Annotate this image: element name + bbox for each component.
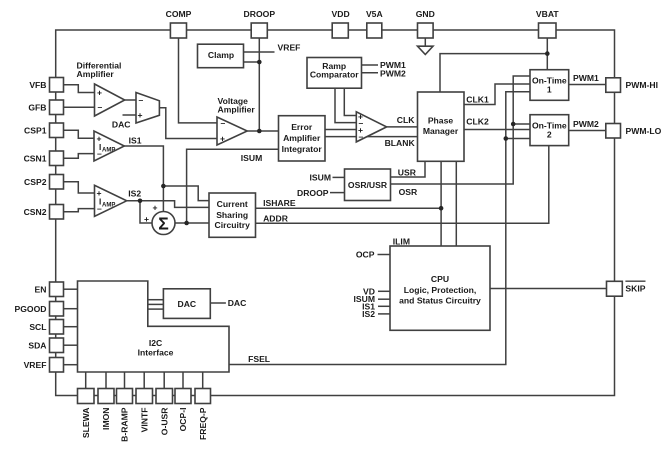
pin FREQ-P	[195, 389, 211, 404]
pin PWM-HI	[606, 78, 621, 93]
pin VFB	[50, 78, 64, 93]
wire COMP down to voltage amp -	[179, 38, 218, 123]
junction dot IS2 branch	[138, 199, 143, 204]
wire ramp comparator to pwm comparator -	[335, 88, 356, 122]
wire error amp to pwm comparator +	[325, 129, 356, 131]
svg-text:Current: Current	[217, 199, 248, 209]
op-amp voltage amplifier	[217, 117, 247, 145]
svg-text:Comparator: Comparator	[310, 70, 359, 80]
wire OSR riser to On-Time 1	[391, 76, 531, 184]
block CPU	[390, 246, 490, 330]
svg-text:+: +	[144, 214, 149, 224]
amplifier polarity marks	[97, 88, 364, 234]
svg-text:IMON: IMON	[101, 408, 111, 430]
svg-text:EN: EN	[35, 284, 47, 294]
svg-text:ADDR: ADDR	[263, 213, 289, 223]
pin VREF	[50, 358, 64, 373]
svg-text:OSR/USR: OSR/USR	[348, 180, 388, 190]
svg-text:PGOOD: PGOOD	[15, 304, 47, 314]
svg-text:FREQ-P: FREQ-P	[198, 407, 208, 440]
svg-text:Error: Error	[291, 122, 313, 132]
junction dot FSEL branch	[504, 136, 509, 141]
block Voltage... Error Amplifier Integrator	[279, 116, 326, 161]
block Current Sharing Circuitry	[209, 193, 256, 237]
svg-text:–: –	[98, 102, 103, 112]
wire OCP-I stub	[182, 372, 184, 389]
wire On-Time 2 PWM2 to PWM-LO	[569, 130, 607, 132]
junction dot IS1 branch	[161, 184, 166, 189]
wire IS1 to summer top	[124, 146, 163, 212]
wire SDA stub to I2C	[64, 344, 78, 346]
svg-text:SKIP: SKIP	[625, 284, 645, 294]
wire CLK comparator out to phase manager	[387, 126, 418, 128]
pin SKIP	[607, 281, 623, 296]
svg-text:+: +	[97, 188, 102, 198]
pin B-RAMP	[117, 389, 133, 404]
svg-text:V5A: V5A	[366, 9, 383, 19]
svg-text:PWM1: PWM1	[573, 73, 599, 83]
block OSR/USR	[345, 169, 391, 201]
svg-text:O-USR: O-USR	[159, 407, 169, 435]
block DAC (I2C)	[163, 289, 210, 319]
wire ramp comparator PWM2 stub	[362, 72, 379, 74]
svg-text:VREF: VREF	[24, 360, 47, 370]
pin SLEWA	[78, 389, 95, 404]
wire VFB to diff amp +	[64, 85, 95, 93]
pin CSN2	[50, 205, 64, 220]
svg-text:CSP2: CSP2	[24, 177, 47, 187]
wire CSN2 to IS2 amp -	[64, 209, 95, 212]
svg-text:PWM2: PWM2	[380, 68, 406, 78]
overline for SKIP	[625, 280, 645, 282]
wire SLEWA stub	[85, 372, 87, 389]
wire FREQ-P stub	[202, 372, 204, 389]
wire voltage amp output to error amplifier	[247, 130, 278, 132]
svg-text:Manager: Manager	[423, 126, 459, 136]
svg-text:Logic, Protection,: Logic, Protection,	[404, 285, 477, 295]
junction dot OSR branch	[511, 122, 516, 127]
svg-text:DAC: DAC	[112, 120, 131, 130]
svg-text:IS1: IS1	[129, 136, 142, 146]
wire CSN1 to IS1 amp -	[64, 154, 95, 159]
svg-text:VREF: VREF	[278, 43, 301, 53]
wire I2C to DAC line1	[148, 299, 164, 301]
wire BLANK line error amp to phase manager	[325, 136, 418, 138]
junction dot DROOP voltage amp output	[257, 129, 262, 134]
wire VINTF stub	[143, 372, 145, 389]
pin VBAT	[539, 23, 557, 38]
wire ISHARE to phase CPU net	[256, 207, 442, 209]
svg-text:OCP-I: OCP-I	[178, 408, 188, 432]
pin CSP2	[50, 175, 64, 190]
svg-text:DROOP: DROOP	[297, 188, 329, 198]
ground symbol	[418, 46, 434, 54]
wire I2C to DAC line3	[148, 308, 164, 310]
block Phase Manager	[418, 92, 465, 161]
svg-text:CSP1: CSP1	[24, 125, 47, 135]
wire DROOP down to voltage amp output node	[258, 38, 260, 131]
svg-text:–: –	[139, 95, 144, 105]
pin SDA	[50, 338, 64, 353]
wire FSEL to On-Time riser	[229, 92, 530, 365]
pin VDD	[332, 23, 348, 38]
wire I2C to DAC line2	[148, 303, 164, 305]
wire On-Time 1 PWM1 to PWM-HI	[569, 84, 607, 86]
svg-text:CLK1: CLK1	[466, 94, 489, 104]
wire ramp comparator to pwm comparator +	[344, 88, 356, 115]
op-amp IS1 current sense amplifier	[94, 131, 124, 161]
pin EN	[50, 282, 64, 297]
svg-text:Amplifier: Amplifier	[77, 69, 115, 79]
svg-text:BLANK: BLANK	[385, 138, 416, 148]
wire CLK1 phase manager to On-Time 1	[464, 84, 530, 105]
svg-text:PWM-LO: PWM-LO	[626, 126, 662, 136]
pin COMP	[170, 23, 186, 38]
svg-text:PWM-HI: PWM-HI	[626, 80, 658, 90]
svg-text:Amplifier: Amplifier	[218, 105, 256, 115]
svg-text:CSN2: CSN2	[24, 207, 47, 217]
block Clamp	[198, 44, 244, 67]
wire VREF stub to I2C	[64, 364, 78, 366]
chip outline border	[56, 30, 615, 396]
wire OSR branch to On-Time 2	[513, 123, 530, 125]
block On-Time 1	[530, 70, 569, 101]
svg-text:Σ: Σ	[158, 214, 169, 234]
wire IS2 branch to current sharing	[140, 201, 209, 208]
wire CSP1 to IS1 amp +	[64, 130, 95, 138]
svg-text:–: –	[359, 131, 364, 141]
wire PGOOD stub to I2C	[64, 308, 78, 310]
junction dot VBAT branch	[545, 51, 550, 56]
svg-text:DAC: DAC	[228, 298, 247, 308]
svg-text:AMP: AMP	[102, 202, 115, 208]
svg-text:+: +	[153, 203, 158, 213]
svg-text:CLK2: CLK2	[466, 116, 489, 126]
pin PGOOD	[50, 302, 64, 317]
svg-text:I: I	[99, 143, 101, 152]
wire DAC stub to mux + input	[123, 114, 137, 116]
block texts	[77, 50, 567, 358]
wire mux output down to voltage amp +	[159, 108, 217, 139]
svg-text:IS2: IS2	[128, 188, 141, 198]
wire DROOP stub to OSR/USR	[330, 192, 345, 194]
wire ISUM stub to CPU	[378, 298, 390, 300]
pin VINTF	[136, 389, 153, 404]
wire EN stub to I2C	[64, 288, 78, 290]
wire phase manager to CPU left	[440, 161, 442, 246]
svg-text:PWM2: PWM2	[573, 119, 599, 129]
svg-text:COMP: COMP	[166, 9, 192, 19]
wire IS1 branch to current sharing	[163, 186, 209, 201]
svg-text:Integrator: Integrator	[282, 144, 323, 154]
pin O-USR	[156, 389, 173, 404]
svg-text:AMP: AMP	[102, 148, 115, 154]
svg-text:DAC: DAC	[177, 299, 196, 309]
svg-text:B-RAMP: B-RAMP	[120, 407, 130, 442]
wire USR to phase manager	[391, 161, 426, 177]
wire IMON stub	[105, 372, 107, 389]
junction dot ISUM summer output	[184, 221, 189, 226]
wire CLK2 phase manager to On-Time 2	[464, 129, 530, 131]
svg-text:+: +	[220, 134, 225, 144]
wire VBAT branch to phase manager top	[440, 54, 547, 92]
block Ramp Comparator	[307, 58, 362, 89]
svg-text:SLEWA: SLEWA	[81, 408, 91, 439]
wire IS2 to summer left	[127, 201, 152, 223]
DAC mux stage	[136, 93, 159, 124]
svg-text:Sharing: Sharing	[216, 210, 248, 220]
svg-text:I: I	[99, 198, 101, 207]
wire VBAT down to On-Time 1	[546, 38, 548, 70]
svg-text:Circuitry: Circuitry	[215, 220, 251, 230]
wire ramp comparator PWM1 stub	[362, 64, 379, 66]
wire clamp upper output to VREF	[244, 51, 275, 53]
svg-text:IS2: IS2	[362, 309, 375, 319]
svg-text:OCP: OCP	[356, 250, 375, 260]
junction dot ISHARE on phase-CPU net	[439, 206, 444, 211]
pin V5A	[367, 23, 382, 38]
svg-text:CSN1: CSN1	[24, 153, 47, 163]
svg-text:+: +	[97, 88, 102, 98]
wire ISUM to error amplifier	[187, 149, 279, 223]
wire clamp lower output to DROOP net	[244, 61, 260, 63]
pin OCP-I	[175, 389, 191, 404]
svg-text:Phase: Phase	[428, 116, 454, 126]
svg-text:2: 2	[547, 130, 552, 140]
svg-text:ISUM: ISUM	[241, 153, 262, 163]
wire CSP2 to IS2 amp +	[64, 182, 95, 193]
svg-text:OSR: OSR	[399, 187, 418, 197]
svg-text:ISHARE: ISHARE	[263, 198, 296, 208]
svg-text:+: +	[138, 110, 143, 120]
svg-text:I2C: I2C	[149, 338, 162, 348]
svg-text:FSEL: FSEL	[248, 354, 270, 364]
block On-Time 2	[530, 115, 569, 146]
wire FSEL branch to On-Time 2	[506, 138, 530, 140]
block I2C Interface (L shape)	[78, 281, 230, 372]
pin PWM-LO	[606, 124, 621, 139]
pin DROOP	[251, 23, 267, 38]
wire VD stub to CPU	[378, 290, 390, 292]
wire diff amp out to DAC mux - input	[125, 99, 136, 101]
wire summer output to current sharing	[175, 222, 209, 224]
wire ISUM stub to OSR/USR	[333, 176, 345, 178]
svg-text:Clamp: Clamp	[208, 50, 234, 60]
svg-text:GND: GND	[416, 9, 435, 19]
svg-text:DROOP: DROOP	[244, 9, 276, 19]
wire DAC output stub	[210, 302, 226, 304]
op-amp differential amplifier	[95, 84, 125, 116]
pin SCL	[50, 320, 64, 335]
svg-text:VBAT: VBAT	[536, 9, 560, 19]
wire GFB to diff amp -	[64, 106, 95, 108]
svg-text:CLK: CLK	[397, 115, 415, 125]
svg-text:1: 1	[547, 85, 552, 95]
op-amp IS2 current sense amplifier	[95, 185, 127, 216]
wire GND pin to ground symbol	[424, 38, 426, 46]
svg-text:Amplifier: Amplifier	[283, 133, 321, 143]
svg-text:ISUM: ISUM	[310, 173, 331, 183]
svg-text:VDD: VDD	[332, 9, 350, 19]
wire B-RAMP stub	[124, 372, 126, 389]
signal labels	[128, 43, 599, 364]
svg-text:–: –	[221, 118, 226, 128]
pin GND	[418, 23, 434, 38]
comparator PWM	[356, 112, 386, 142]
summing junction circle	[152, 212, 175, 235]
wire IS2 stub to CPU	[378, 313, 390, 315]
svg-text:CPU: CPU	[431, 274, 449, 284]
svg-text:VFB: VFB	[29, 80, 46, 90]
wire SCL stub to I2C	[64, 326, 78, 328]
svg-text:USR: USR	[398, 167, 417, 177]
pin CSP1	[50, 123, 64, 138]
svg-text:ILIM: ILIM	[393, 236, 410, 246]
pin CSN1	[50, 151, 64, 166]
wire phase manager to CPU right	[455, 161, 457, 246]
svg-text:SCL: SCL	[29, 322, 46, 332]
svg-text:SDA: SDA	[28, 340, 46, 350]
svg-text:GFB: GFB	[28, 102, 46, 112]
svg-text:+: +	[97, 133, 102, 143]
wire CPU to SKIP pin	[490, 288, 607, 290]
wire OCP stub to CPU	[378, 254, 391, 256]
svg-text:and Status Circuitry: and Status Circuitry	[399, 295, 481, 305]
wire ADDR to On-Time 2 bottom	[256, 146, 549, 224]
svg-text:Interface: Interface	[138, 348, 174, 358]
wire O-USR stub	[163, 372, 165, 389]
pin GFB	[50, 100, 64, 115]
junction dot DROOP clamp	[257, 60, 262, 65]
wire IS1 stub to CPU	[378, 305, 390, 307]
svg-text:VINTF: VINTF	[139, 408, 149, 433]
pin IMON	[98, 389, 114, 404]
